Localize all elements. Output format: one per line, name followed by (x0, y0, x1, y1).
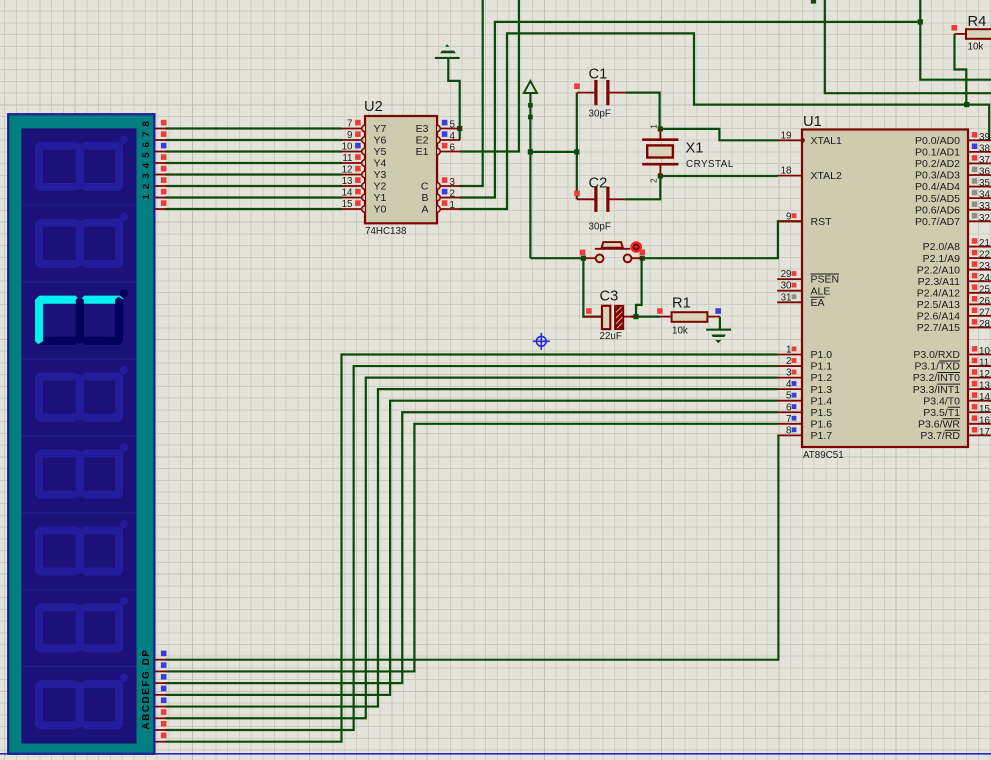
display bottom pin stub 4 (154, 706, 167, 708)
svg-text:2: 2 (650, 178, 659, 183)
svg-text:3: 3 (786, 368, 792, 379)
svg-text:29: 29 (781, 269, 792, 280)
decoder U2 74HC138 (365, 116, 437, 223)
wire display pin7 to U2 (166, 196, 342, 198)
wire display DP to U1 P1.7 (166, 435, 779, 659)
display bottom pin stub 6 (154, 729, 167, 731)
resistor R4 (955, 33, 967, 35)
svg-text:30pF: 30pF (589, 222, 611, 233)
svg-text:6: 6 (786, 402, 792, 413)
ground (at R1) (706, 329, 731, 344)
svg-text:35: 35 (979, 178, 990, 189)
svg-text:RST: RST (811, 216, 833, 228)
svg-text:10: 10 (979, 346, 990, 357)
svg-text:33: 33 (979, 201, 990, 212)
display outer border (8, 114, 154, 754)
svg-text:38: 38 (979, 143, 990, 154)
display inner panel (21, 128, 136, 743)
svg-text:7: 7 (786, 414, 791, 425)
svg-text:P2.5/A13: P2.5/A13 (917, 299, 960, 311)
power terminal arrow (524, 81, 537, 93)
svg-text:22: 22 (979, 250, 990, 261)
svg-text:P0.7/AD7: P0.7/AD7 (915, 216, 960, 228)
svg-text:R4: R4 (968, 14, 987, 30)
wire C up to top (460, 0, 483, 186)
svg-text:EA: EA (811, 297, 825, 309)
svg-text:23: 23 (979, 261, 990, 272)
wire B net (460, 22, 921, 198)
svg-text:74HC138: 74HC138 (365, 226, 407, 237)
svg-text:2: 2 (786, 356, 791, 367)
svg-text:30pF: 30pF (589, 109, 611, 120)
display bottom pin stub 3 (154, 694, 167, 696)
svg-text:P2.2/A10: P2.2/A10 (917, 264, 960, 276)
svg-text:P3.7/RD: P3.7/RD (920, 430, 960, 442)
svg-text:10: 10 (342, 142, 353, 153)
svg-text:P0.2/AD2: P0.2/AD2 (915, 158, 960, 170)
svg-text:P1.6: P1.6 (811, 418, 833, 430)
svg-text:P1.5: P1.5 (811, 407, 833, 419)
button toggle marker (632, 242, 641, 251)
wire display pin2 to U2 (166, 139, 342, 141)
svg-text:P3.4/T0: P3.4/T0 (923, 395, 960, 407)
svg-text:30: 30 (781, 281, 792, 292)
svg-text:10k: 10k (672, 326, 688, 337)
svg-text:B: B (421, 192, 428, 204)
svg-text:Y7: Y7 (374, 123, 387, 135)
svg-text:ABCDEFG DP: ABCDEFG DP (141, 648, 152, 729)
wire display G to U1 P1.6 (166, 424, 778, 672)
display digit cell 8 (36, 680, 78, 688)
svg-text:2: 2 (450, 189, 455, 200)
display top pin 7 stub (154, 197, 167, 199)
svg-text:16: 16 (979, 415, 990, 426)
capacitor C3 22uF (583, 316, 602, 318)
svg-text:14: 14 (979, 392, 990, 403)
svg-text:P2.3/A11: P2.3/A11 (918, 276, 961, 288)
svg-text:27: 27 (979, 307, 990, 318)
svg-text:P0.3/AD3: P0.3/AD3 (915, 170, 960, 182)
svg-text:21: 21 (979, 238, 990, 249)
display digit cell 5 (36, 449, 78, 457)
svg-text:P2.1/A9: P2.1/A9 (923, 253, 961, 265)
svg-text:CRYSTAL: CRYSTAL (686, 159, 734, 170)
svg-text:10k: 10k (968, 42, 984, 53)
svg-text:24: 24 (979, 273, 990, 284)
display top pin 3 stub (154, 151, 167, 153)
display bottom pin stub 1 (154, 670, 167, 672)
svg-text:8: 8 (786, 425, 792, 436)
svg-text:P0.5/AD5: P0.5/AD5 (915, 193, 960, 205)
wire power to button (530, 257, 583, 259)
wire display A to U1 P1.0 (166, 355, 778, 742)
svg-text:C: C (421, 181, 429, 193)
wire display pin1 to U2 (166, 127, 342, 129)
display digit cell 6 (36, 526, 78, 534)
display bottom pin stub 0 (154, 659, 167, 661)
svg-text:13: 13 (342, 176, 353, 187)
svg-text:P1.7: P1.7 (811, 430, 833, 442)
crystal X1 (659, 129, 661, 140)
svg-text:P2.4/A12: P2.4/A12 (917, 287, 960, 299)
svg-text:28: 28 (979, 319, 990, 330)
svg-text:P3.0/RXD: P3.0/RXD (913, 349, 960, 361)
display bottom pin stub 7 (154, 741, 167, 743)
ground (top, rotated up) (435, 44, 460, 59)
svg-text:P0.6/AD6: P0.6/AD6 (915, 204, 960, 216)
svg-text:12: 12 (342, 165, 353, 176)
svg-text:Y3: Y3 (374, 169, 387, 181)
svg-text:6: 6 (450, 143, 456, 154)
wire display B to U1 P1.1 (166, 366, 778, 730)
svg-text:P0.0/AD0: P0.0/AD0 (915, 135, 960, 147)
display digit cell 7 (36, 603, 78, 611)
ground gnd1 wire (448, 59, 459, 129)
display top pin 4 stub (154, 162, 167, 164)
svg-text:4: 4 (450, 131, 456, 142)
power rail node dots (528, 103, 533, 108)
svg-text:P3.2/INT0: P3.2/INT0 (913, 372, 960, 384)
wire button right down to C3 node (636, 258, 642, 316)
svg-text:P3.5/T1: P3.5/T1 (923, 407, 960, 419)
display digit cell 3 (36, 296, 78, 304)
svg-text:Y2: Y2 (374, 181, 387, 193)
svg-text:Y0: Y0 (374, 204, 387, 216)
wire display C to U1 P1.2 (166, 378, 778, 719)
wire power branch (530, 151, 576, 153)
wire display pin3 to U2 (166, 150, 342, 152)
svg-text:9: 9 (786, 211, 791, 222)
svg-text:1: 1 (450, 200, 455, 211)
svg-text:3: 3 (450, 177, 456, 188)
logic state squares (161, 120, 167, 126)
svg-text:Y6: Y6 (374, 135, 387, 147)
wire crystal pin1 to XTAL1 (660, 129, 777, 140)
svg-text:P2.0/A8: P2.0/A8 (923, 241, 961, 253)
svg-text:14: 14 (342, 188, 353, 199)
wire button left down to C3 (583, 258, 602, 316)
svg-text:P1.0: P1.0 (811, 349, 833, 361)
svg-text:7: 7 (347, 119, 352, 130)
svg-text:XTAL1: XTAL1 (811, 135, 842, 147)
svg-text:17: 17 (979, 427, 990, 438)
svg-text:ALE: ALE (811, 285, 831, 297)
svg-text:5: 5 (786, 391, 792, 402)
wire E3/E2 tie (to ground) (459, 129, 461, 141)
sheet border line (0, 753, 991, 755)
U2 pin stubs (342, 128, 363, 130)
wire power rail down (529, 93, 531, 258)
svg-text:U1: U1 (803, 114, 822, 130)
display top pin 1 stub (154, 128, 167, 130)
display top pin 6 stub (154, 185, 167, 187)
svg-text:31: 31 (781, 292, 792, 303)
wire C3 to R1 (631, 316, 660, 318)
svg-text:XTAL2: XTAL2 (811, 170, 842, 182)
wire E1 up to top (460, 0, 519, 152)
XTAL1 clock bump (802, 138, 805, 144)
svg-text:P0.1/AD1: P0.1/AD1 (915, 146, 960, 158)
svg-text:1: 1 (786, 345, 791, 356)
svg-text:P2.7/A15: P2.7/A15 (917, 322, 960, 334)
wire A net (460, 33, 990, 209)
svg-text:E2: E2 (416, 135, 429, 147)
svg-text:22uF: 22uF (600, 331, 622, 342)
push button (585, 257, 596, 259)
origin marker (533, 333, 550, 350)
svg-text:Y4: Y4 (374, 158, 387, 170)
svg-text:U2: U2 (364, 99, 383, 115)
wire display pin4 to U2 (166, 162, 342, 164)
wire B net right segment (920, 0, 991, 80)
wire display F to U1 P1.5 (166, 412, 778, 683)
svg-text:26: 26 (979, 296, 990, 307)
wire top net to right edge (825, 0, 991, 93)
display bottom pin stub 5 (154, 717, 167, 719)
display digit cell 4 (36, 373, 78, 381)
svg-text:P1.4: P1.4 (811, 395, 833, 407)
svg-text:P1.1: P1.1 (811, 361, 833, 373)
svg-text:37: 37 (979, 155, 990, 166)
svg-text:11: 11 (979, 358, 989, 369)
svg-text:P3.6/WR: P3.6/WR (918, 418, 960, 430)
display digit cell 2 (36, 219, 78, 227)
svg-text:R1: R1 (672, 296, 691, 312)
svg-text:12: 12 (979, 369, 990, 380)
svg-text:25: 25 (979, 284, 990, 295)
svg-text:P2.6/A14: P2.6/A14 (917, 311, 960, 323)
svg-text:P0.4/AD4: P0.4/AD4 (915, 181, 960, 193)
wire display E to U1 P1.4 (166, 401, 778, 695)
junction dots (457, 126, 462, 131)
svg-text:4: 4 (786, 379, 792, 390)
svg-text:P3.1/TXD: P3.1/TXD (914, 361, 960, 373)
capacitor C2 (577, 198, 595, 200)
svg-text:A: A (421, 204, 428, 216)
svg-text:19: 19 (781, 130, 792, 141)
wire button right to RST (645, 221, 802, 258)
U1 pin stubs (777, 139, 802, 141)
display bottom pin stub 2 (154, 682, 167, 684)
display digit cell 1 (36, 142, 78, 150)
svg-text:C3: C3 (600, 289, 619, 305)
wire R1 right to ground (719, 317, 721, 330)
display top pin 8 stub (154, 208, 167, 210)
svg-text:15: 15 (979, 404, 990, 415)
svg-text:13: 13 (979, 381, 990, 392)
svg-text:32: 32 (979, 213, 990, 224)
display top pin 5 stub (154, 174, 167, 176)
microcontroller U1 AT89C51 (802, 130, 968, 448)
svg-text:C2: C2 (589, 176, 608, 192)
svg-text:36: 36 (979, 167, 990, 178)
svg-text:34: 34 (979, 190, 990, 201)
capacitor C1 (577, 92, 595, 94)
wire display pin5 to U2 (166, 173, 342, 175)
svg-text:39: 39 (979, 132, 990, 143)
wire R4 branch (955, 34, 967, 105)
svg-text:12345678: 12345678 (141, 116, 152, 200)
svg-text:5: 5 (450, 120, 456, 131)
wire C1 right to crystal pin1 (625, 93, 659, 129)
svg-text:X1: X1 (686, 141, 704, 157)
wire C2 right to crystal pin2 (625, 176, 661, 199)
resistor R1 (660, 316, 672, 318)
svg-text:PSEN: PSEN (811, 274, 840, 286)
svg-text:C1: C1 (589, 67, 608, 83)
display top pin 2 stub (154, 139, 167, 141)
svg-text:P1.3: P1.3 (811, 384, 833, 396)
svg-text:15: 15 (342, 199, 353, 210)
wire display D to U1 P1.3 (166, 389, 778, 706)
svg-text:AT89C51: AT89C51 (803, 450, 844, 461)
wire display pin6 to U2 (166, 185, 342, 187)
svg-text:11: 11 (342, 153, 352, 164)
svg-text:P3.3/INT1: P3.3/INT1 (913, 384, 960, 396)
svg-text:E3: E3 (416, 123, 429, 135)
svg-text:9: 9 (347, 130, 352, 141)
wire display pin8 to U2 (166, 208, 342, 210)
svg-text:E1: E1 (416, 146, 429, 158)
wire C1-C2 vertical (576, 93, 578, 200)
svg-text:Y1: Y1 (374, 192, 387, 204)
svg-text:18: 18 (781, 166, 792, 177)
svg-text:P1.2: P1.2 (811, 372, 833, 384)
svg-text:1: 1 (650, 124, 659, 129)
wire crystal pin2 to XTAL2 (660, 175, 777, 177)
svg-text:Y5: Y5 (374, 146, 387, 158)
